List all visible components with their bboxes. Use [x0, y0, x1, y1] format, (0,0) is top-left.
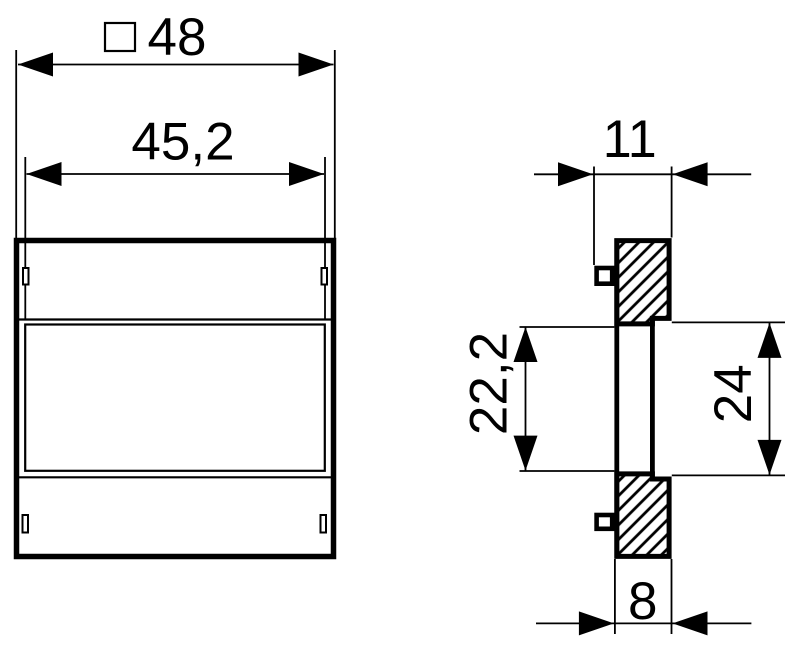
dimension 45,2: left extension line	[24, 157, 26, 320]
dimension 8: dimension line	[536, 622, 751, 624]
svg-text:8: 8	[628, 572, 657, 631]
side view: top flange cross-section with hatching	[617, 241, 669, 324]
side view: web right edge line	[650, 318, 655, 477]
dimension 24: bottom arrowhead	[758, 440, 782, 475]
dimension 8: right extension line	[671, 559, 673, 634]
dimension 11: left extension line	[593, 167, 595, 266]
dimension 24: bottom extension line	[672, 474, 785, 476]
front view: upper separator line	[19, 318, 331, 320]
dimension 48: left arrowhead	[18, 53, 53, 77]
dimension 22,2: top arrowhead	[514, 327, 538, 362]
front view: bottom-right clip	[321, 515, 327, 533]
side view: front face line	[614, 239, 619, 559]
svg-text:22,2: 22,2	[460, 332, 519, 435]
front view: bottom-left clip	[23, 515, 29, 533]
dimension 45,2: dimension line	[27, 173, 325, 175]
dimension 48: dimension line	[18, 64, 334, 66]
dimension 48: right extension line	[334, 50, 336, 240]
dimension 11: dimension line	[534, 173, 751, 175]
dimension 8: right arrowhead	[673, 611, 708, 635]
dimension 8: left extension line	[614, 559, 616, 634]
dimension 24: top arrowhead	[758, 323, 782, 358]
svg-text:45,2: 45,2	[131, 113, 234, 172]
dimension 22,2: dimension line	[525, 327, 527, 471]
dimension 48: value label	[148, 8, 207, 67]
front view: window frame rectangle	[25, 325, 325, 471]
front view: top-left clip	[23, 268, 29, 285]
dimension 48: left extension line	[15, 50, 17, 240]
dimension 45,2: value label	[131, 113, 234, 172]
dimension 48: square symbol	[105, 23, 135, 51]
dimension 45,2: right extension line	[324, 157, 326, 320]
side view: bottom flange cross-section with hatching	[617, 474, 669, 557]
dimension 8: value label	[628, 572, 657, 631]
dimension 24: top extension line	[672, 321, 785, 323]
side view: bottom mounting clip	[597, 515, 613, 529]
front view: lower separator line	[19, 476, 331, 478]
svg-text:48: 48	[148, 8, 207, 67]
dimension 22,2: bottom extension line	[520, 470, 615, 472]
dimension 45,2: left arrowhead	[27, 162, 62, 186]
dimension 24: value label (rotated)	[704, 364, 763, 423]
front view: top-right clip	[322, 268, 328, 285]
dimension 11: value label	[603, 110, 657, 169]
dimension 45,2: right arrowhead	[289, 162, 324, 186]
svg-text:24: 24	[704, 364, 763, 423]
dimension 48: right arrowhead	[299, 53, 334, 77]
svg-text:11: 11	[603, 110, 657, 169]
dimension 11: left arrowhead	[558, 162, 593, 186]
dimension 8: left arrowhead	[579, 611, 614, 635]
dimension 11: right arrowhead	[673, 162, 708, 186]
dimension 11: right extension line	[671, 167, 673, 238]
dimension 22,2: value label (rotated)	[460, 332, 519, 435]
dimension 22,2: top extension line	[520, 326, 615, 328]
side view: top mounting clip	[597, 268, 613, 284]
dimension 22,2: bottom arrowhead	[514, 436, 538, 471]
dimension 24: dimension line	[769, 322, 771, 475]
front view: outer square bezel outline	[17, 241, 334, 557]
